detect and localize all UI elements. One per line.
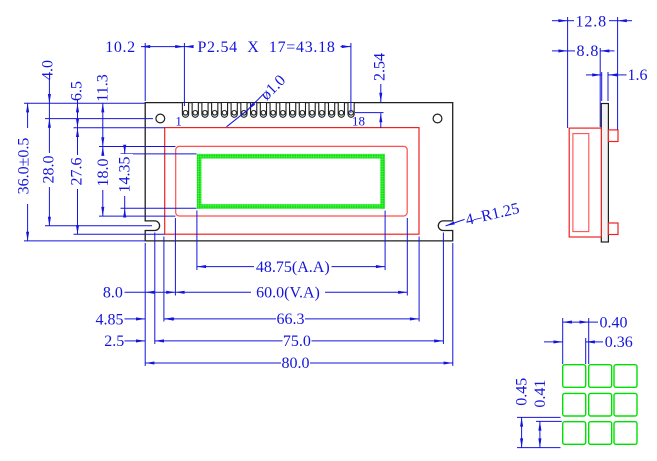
dimension 14.35 [124,146,126,154]
side view tab top [608,130,618,142]
dimension 0.40 [563,321,589,323]
svg-text:10.2: 10.2 [105,39,135,56]
svg-text:28.0: 28.0 [41,156,58,184]
svg-text:18: 18 [352,114,365,129]
dimension 8.8 [552,50,568,52]
extension lines left side [24,102,145,104]
dimension 1.6 [586,74,601,76]
svg-text:8.8: 8.8 [577,43,600,60]
svg-text:12.8: 12.8 [575,13,607,30]
svg-text:0.41: 0.41 [532,380,549,408]
svg-text:ø1.0: ø1.0 [257,72,289,104]
svg-text:0.40: 0.40 [600,314,628,331]
detail extension lines left [517,416,561,418]
bottom extension lines [144,243,146,366]
side view tab bottom [608,223,618,235]
svg-text:18.0: 18.0 [95,159,112,187]
svg-text:75.0: 75.0 [283,333,311,350]
svg-text:48.75(A.A): 48.75(A.A) [256,259,330,276]
side extension lines [567,17,569,128]
svg-text:4.0: 4.0 [40,60,57,80]
active area green dotted border [197,154,385,209]
svg-text:2.54: 2.54 [372,53,389,81]
svg-text:1: 1 [175,114,182,129]
svg-text:8.0: 8.0 [103,285,123,302]
dimension 0.45 [521,417,523,447]
mounting hole right [433,114,442,123]
svg-text:2.5: 2.5 [104,333,124,350]
svg-text:4–R1.25: 4–R1.25 [464,200,521,229]
PCB outline front view [145,103,453,241]
dimension 36.0±0.5 [27,103,29,241]
dimension 60.0(V.A) [175,291,251,293]
svg-text:80.0: 80.0 [282,355,310,372]
dimension 28.0 [48,119,50,226]
pin header 18 pins [182,103,354,117]
pixel grid 3x3 [563,365,637,445]
dimension 11.3 [102,103,104,146]
svg-text:P2.54 X 17=43.18: P2.54 X 17=43.18 [197,39,335,56]
svg-text:6.5: 6.5 [69,81,86,101]
dimension 0.36 [544,341,563,343]
dimension 66.3 [165,318,276,320]
dimension 18.0 [102,147,104,217]
dimension P2.54 X 17=43.18 [184,46,192,48]
extension line pin1 [183,43,185,106]
svg-text:66.3: 66.3 [277,311,305,328]
side view bezel inner [573,134,589,232]
dimension 75.0 [155,340,283,342]
side view bezel outer [569,128,601,237]
dimension 80.0 [145,362,281,364]
svg-text:36.0±0.5: 36.0±0.5 [16,138,33,195]
dimension 12.8 [552,20,568,22]
mounting hole left [156,114,165,123]
extension line pcb left top [144,43,146,101]
svg-text:60.0(V.A): 60.0(V.A) [256,285,320,302]
dimension 27.6 [77,128,79,235]
detail extension lines top [562,318,564,364]
svg-text:4.85: 4.85 [96,311,124,328]
svg-text:0.36: 0.36 [605,334,633,351]
dimension 0.41 [539,421,541,447]
svg-text:14.35: 14.35 [117,157,134,193]
viewing area inner red rounded rect 60.0 [176,146,408,216]
svg-text:27.6: 27.6 [69,158,86,186]
dimension 48.75(A.A) [197,266,254,268]
side view pcb bar [601,104,608,243]
leader and label dia 1.0 [248,94,264,110]
leader and label 4-R1.25 [446,219,465,226]
svg-text:11.3: 11.3 [95,74,112,101]
svg-text:0.45: 0.45 [514,378,531,406]
svg-text:1.6: 1.6 [628,67,648,84]
bezel opening outer red rect 66.3 [165,128,419,235]
extension line pin18 [350,43,352,113]
